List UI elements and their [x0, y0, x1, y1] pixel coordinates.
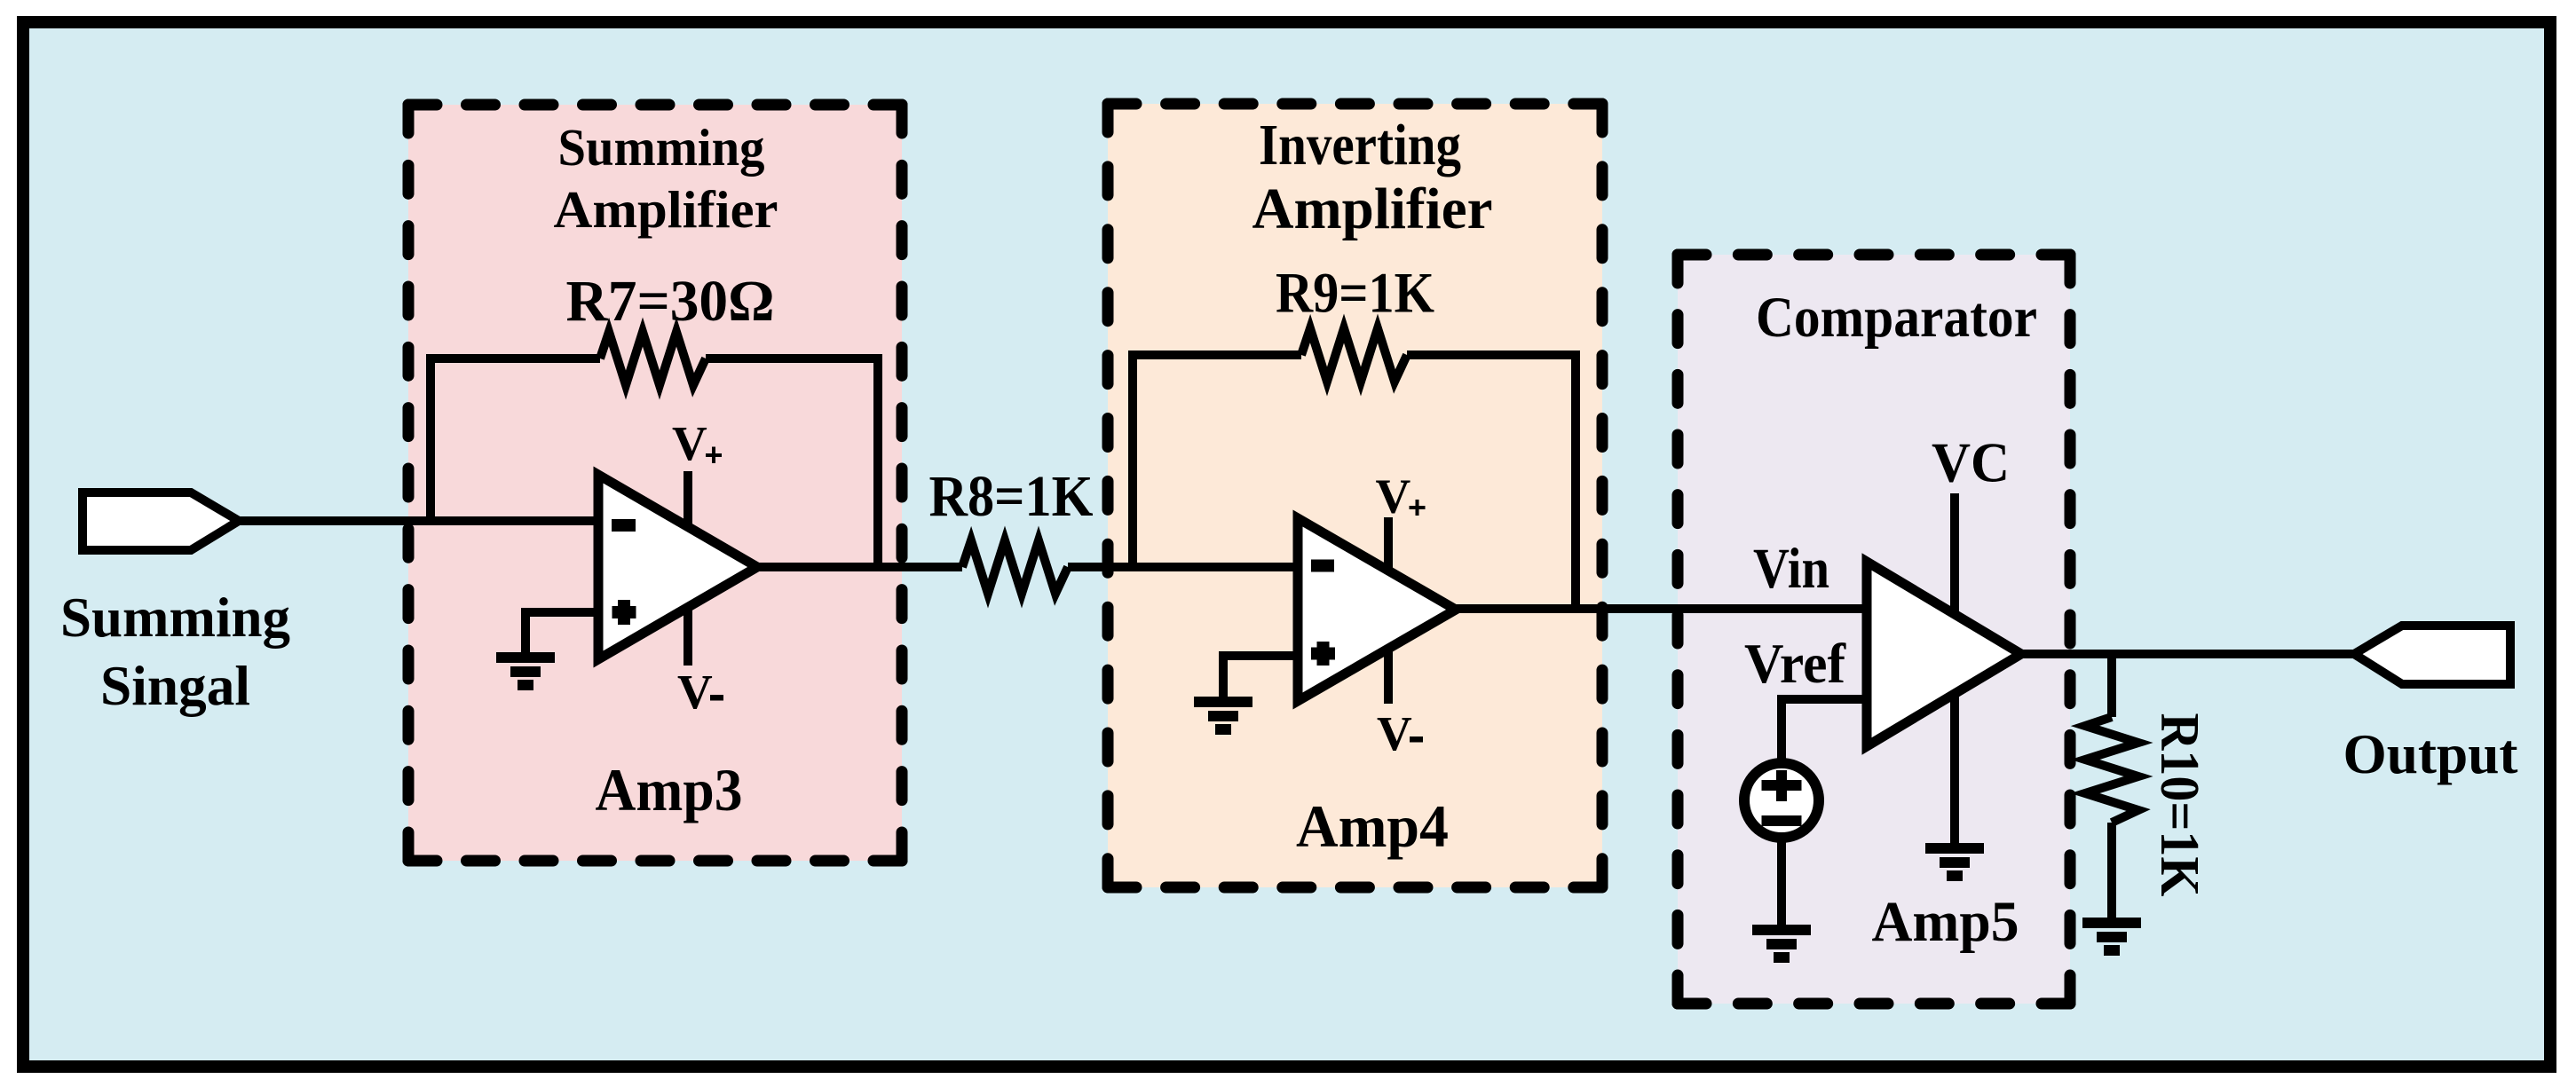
- wire: Amp3 feedback left/top segment: [431, 358, 600, 525]
- input terminal (Summing Singal): [83, 492, 239, 550]
- svg-text:Amp3: Amp3: [596, 756, 743, 823]
- svg-text:V: V: [1376, 469, 1411, 524]
- wire: V+ supply stub (Amp4): [1384, 517, 1393, 586]
- wire: Amp4 feedback top/right segment to output node: [1407, 355, 1576, 609]
- ground (VC line): [1925, 848, 1984, 876]
- wire: Amp3 output to R8: [757, 563, 962, 571]
- resistor R10: [2085, 717, 2138, 823]
- svg-text:R9=1K: R9=1K: [1276, 262, 1434, 326]
- wire: Amp4 output to Amp5 inverting input (node Vin): [1456, 604, 1867, 613]
- wire: input terminal to Amp3 inverting input: [231, 516, 598, 525]
- svg-text:Singal: Singal: [100, 654, 250, 717]
- wire: Amp5 output to output terminal: [2021, 650, 2357, 658]
- svg-text:R7=30Ω: R7=30Ω: [566, 269, 775, 334]
- resistor R7: [600, 332, 706, 385]
- minus mark (Amp3 inverting input): [612, 519, 636, 532]
- output terminal: [2354, 626, 2510, 684]
- ground (Vref source): [1752, 930, 1811, 957]
- label: V+ (Amp4): [1376, 469, 1426, 524]
- wire: R8 to Amp4 inverting input: [1068, 563, 1298, 571]
- svg-text:Amplifier: Amplifier: [554, 180, 778, 239]
- inverting amplifier stage box: [1108, 104, 1602, 887]
- svg-text:Summing: Summing: [558, 118, 765, 177]
- wire: Amp4 feedback left/top segment: [1133, 355, 1301, 571]
- label: V- (Amp3): [677, 665, 723, 719]
- svg-text:Amp5: Amp5: [1872, 890, 2019, 954]
- op-amp Amp5 (comparator): [1867, 562, 2021, 746]
- svg-text:R10=1K: R10=1K: [2149, 713, 2209, 897]
- wire: R10 to ground: [2107, 823, 2116, 923]
- ground (Amp3 non-inverting input): [496, 658, 555, 685]
- wire: Vref source to Amp5 non-inverting input: [1782, 699, 1867, 760]
- op-amp Amp3: [598, 475, 757, 659]
- wire: Amp3 non-inverting input to ground: [525, 612, 598, 658]
- op-amp Amp4: [1298, 518, 1456, 701]
- wire: VC supply line through Amp5 to ground: [1950, 493, 1959, 848]
- wire: voltage source to ground: [1777, 838, 1786, 930]
- wire: output node down to R10: [2107, 654, 2116, 717]
- svg-text:Amplifier: Amplifier: [1252, 177, 1493, 241]
- voltage source Vref: [1744, 763, 1819, 838]
- svg-text:Amp4: Amp4: [1296, 792, 1449, 860]
- wire: Amp3 feedback top/right segment to output node: [706, 358, 878, 567]
- svg-text:Summing: Summing: [60, 586, 290, 649]
- svg-text:V: V: [677, 665, 713, 719]
- plus mark (Amp3 non-inverting input): [612, 600, 636, 625]
- wire: V- supply stub (Amp3): [684, 590, 692, 666]
- label: V+ (Amp3): [672, 416, 722, 470]
- wire: V- supply stub (Amp4): [1384, 632, 1393, 704]
- wire: V+ supply stub (Amp3): [684, 471, 692, 541]
- svg-text:VC: VC: [1932, 431, 2010, 494]
- resistor R9: [1301, 328, 1407, 382]
- ground (Amp4 non-inverting input): [1194, 702, 1252, 729]
- plus mark (Amp4 non-inverting input): [1311, 642, 1335, 666]
- svg-text:Comparator: Comparator: [1756, 286, 2037, 350]
- summing amplifier stage box: [408, 105, 902, 861]
- svg-text:Vref: Vref: [1744, 632, 1846, 695]
- svg-text:V: V: [1377, 706, 1412, 760]
- svg-text:Inverting: Inverting: [1259, 113, 1461, 177]
- svg-text:Output: Output: [2343, 722, 2519, 785]
- resistor R8: [962, 540, 1068, 594]
- minus mark (Amp4 inverting input): [1311, 560, 1334, 572]
- svg-text:V: V: [672, 416, 707, 470]
- comparator stage box: [1678, 255, 2070, 1004]
- svg-text:R8=1K: R8=1K: [929, 464, 1094, 529]
- ground (R10): [2082, 923, 2141, 950]
- svg-text:Vin: Vin: [1753, 537, 1829, 601]
- label: V- (Amp4): [1377, 706, 1423, 760]
- wire: Amp4 non-inverting input to ground: [1223, 656, 1298, 702]
